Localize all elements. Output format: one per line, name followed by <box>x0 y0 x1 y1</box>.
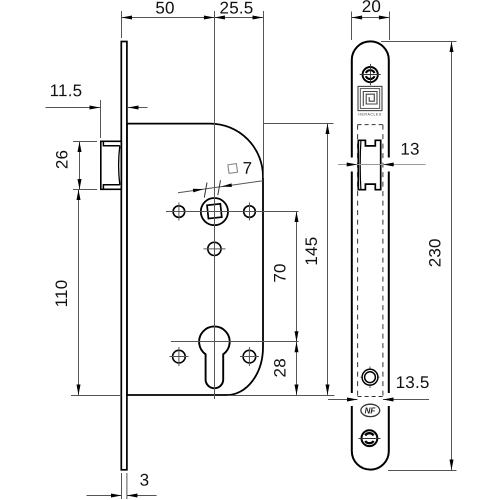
dim 11.5 extension line (latch face) <box>100 100 102 138</box>
svg-text:26: 26 <box>53 150 72 169</box>
dim 145 arrows <box>326 124 330 135</box>
body bottom edge extension <box>228 395 335 397</box>
spindle horizontal centerline <box>166 211 299 213</box>
crosshair ticks left hole <box>178 203 180 221</box>
screw hole left of cylinder <box>173 350 186 363</box>
latch bolt bottom step <box>103 185 119 190</box>
svg-text:50: 50 <box>155 0 174 18</box>
latch front view <box>358 140 380 189</box>
svg-text:3: 3 <box>140 471 150 490</box>
dim 110 line <box>78 190 80 396</box>
dim 7 oblique line <box>178 181 263 193</box>
screw hole right of cylinder <box>243 350 256 363</box>
dim 28 line <box>296 342 298 395</box>
svg-text:13: 13 <box>400 140 419 159</box>
lock body outline <box>127 124 263 395</box>
svg-text:NF: NF <box>365 407 377 416</box>
dim 7 square symbol <box>228 164 238 174</box>
svg-text:25.5: 25.5 <box>220 0 254 18</box>
hidden case line left (dashed) <box>357 125 359 399</box>
dim 3 extension lines <box>121 473 123 499</box>
faceplate front outline <box>352 41 389 469</box>
dim 50 arrows <box>122 16 133 20</box>
svg-text:11.5: 11.5 <box>50 81 83 100</box>
dim 3 arrows <box>111 494 122 498</box>
svg-text:7: 7 <box>243 159 253 178</box>
hidden case top (dashed) <box>358 124 383 126</box>
bottom screw <box>362 430 378 446</box>
svg-text:HERACLES: HERACLES <box>358 113 381 117</box>
lower countersunk hole <box>369 367 371 389</box>
hidden case line right (dashed) <box>382 125 384 399</box>
dim 110 arrows <box>77 190 81 201</box>
dim 13.5 arrows <box>347 398 358 402</box>
faceplate side bar <box>121 42 127 470</box>
dim 11.5 arrows <box>90 106 101 110</box>
body top edge extension <box>263 123 334 125</box>
crosshair ticks below-spindle hole <box>204 248 226 250</box>
dim 230 extension top <box>381 41 457 43</box>
svg-text:110: 110 <box>52 280 71 308</box>
dim 3 line left <box>87 495 122 497</box>
dim 11.5 line right <box>128 107 148 109</box>
hole below spindle <box>208 242 221 255</box>
dim 110 bottom extension <box>71 395 121 397</box>
dim 3 line right <box>127 495 157 497</box>
dim 11.5 line left <box>46 107 101 109</box>
dim 20 extension lines <box>351 12 353 41</box>
dim 230 line <box>451 42 453 471</box>
dim 20 line <box>352 17 390 19</box>
crosshair ticks lower-left hole <box>170 356 189 358</box>
dim 7 tick 1 <box>204 183 207 198</box>
crosshair ticks lower-right hole <box>240 356 259 358</box>
dim 13 centerline <box>338 164 426 166</box>
dim 25.5 arrows <box>214 16 225 20</box>
dim 70 line <box>296 212 298 342</box>
crosshair ticks right hole <box>249 203 251 221</box>
hidden case bottom (dashed) <box>358 396 383 398</box>
dim 26 arrows <box>78 142 82 153</box>
svg-text:13.5: 13.5 <box>396 373 430 392</box>
dim 13.5 line left <box>328 399 358 401</box>
euro cylinder hole <box>199 326 230 388</box>
dim 7 tick 2 <box>218 180 221 195</box>
top screw <box>363 67 378 82</box>
dim 20 arrows <box>352 16 363 20</box>
svg-text:230: 230 <box>425 238 444 267</box>
dim 50 extension line (faceplate) <box>121 11 123 38</box>
dim 7 arrows <box>193 189 204 193</box>
dim 145 line <box>327 124 329 396</box>
dim 28 arrows <box>295 342 299 353</box>
NF logo <box>361 404 380 416</box>
dim 230 arrows <box>450 42 454 53</box>
latch bolt top step <box>103 141 119 146</box>
screw hole left of spindle <box>173 206 185 218</box>
dim 25.5 extension line (body right edge) <box>263 11 265 178</box>
svg-text:70: 70 <box>271 263 290 282</box>
latch bolt side view <box>101 141 122 189</box>
spindle follower circle <box>201 198 228 225</box>
dim 25.5 line <box>214 17 263 19</box>
svg-text:20: 20 <box>362 0 381 16</box>
spindle square hole <box>207 204 222 219</box>
dim 26 line <box>79 142 81 190</box>
latch front bevel line <box>359 140 362 189</box>
screw hole right of spindle <box>244 206 256 218</box>
dim 13.5 line right <box>383 399 429 401</box>
dim 50 line <box>122 17 215 19</box>
dim 26 extension bottom <box>73 189 97 191</box>
Heracles logo spiral <box>363 92 377 107</box>
latch bevel curve <box>119 146 120 185</box>
plate edge gaps at dim 13.5 crossing <box>347 393 356 406</box>
dim 13 arrows <box>347 163 358 167</box>
dim 70 arrows <box>295 212 299 223</box>
dim 26 extension top <box>73 141 97 143</box>
spindle vertical centerline <box>214 11 216 399</box>
svg-text:28: 28 <box>270 358 289 377</box>
cylinder horizontal centerline <box>171 341 299 343</box>
Heracles logo box <box>358 86 382 110</box>
plate edge gaps at dim 13 crossing <box>347 158 356 172</box>
dim 230 extension bottom <box>388 470 457 472</box>
svg-text:145: 145 <box>302 237 321 266</box>
